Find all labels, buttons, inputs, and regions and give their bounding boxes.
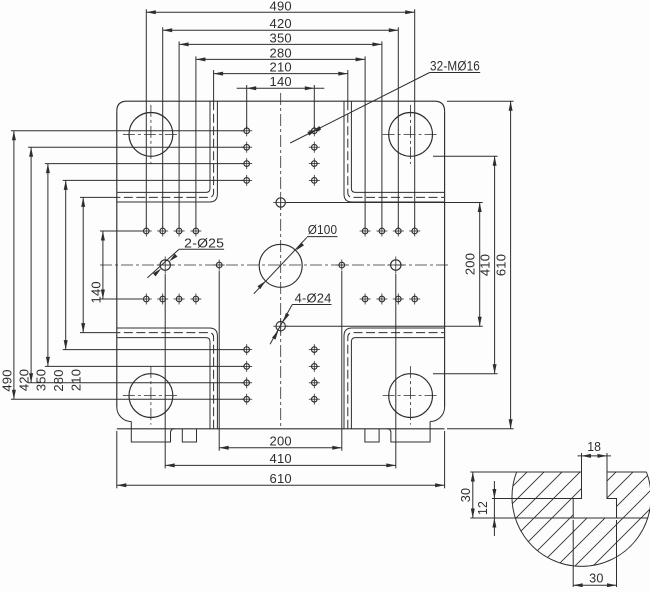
M16 hole bottom arm (314,350) xyxy=(309,344,320,355)
Ø25 hole right xyxy=(387,257,404,274)
svg-text:30: 30 xyxy=(589,572,604,586)
leader slash for 4-Ø24 xyxy=(270,305,332,345)
M16 hole bottom arm (314,383) xyxy=(309,377,320,388)
M16 hole right arm (382,231) xyxy=(376,226,387,237)
detail dimension 30 left arrows xyxy=(471,472,475,518)
small hole right of center xyxy=(336,260,347,271)
detail dimension 18 extension lines xyxy=(582,453,608,472)
M16 hole right arm (415,231) xyxy=(409,226,420,237)
M16 hole left arm (163,299) xyxy=(157,294,168,305)
top dimension 140 left arrow xyxy=(247,86,257,90)
detail bottom dimension 30 line xyxy=(573,584,616,586)
left dimension 210 bottom arrow xyxy=(81,323,85,333)
svg-text:200: 200 xyxy=(463,253,478,275)
plate outline: bottom edge xyxy=(117,428,445,430)
detail dimension 18 arrows xyxy=(582,454,608,458)
top dimension 280 right arrow xyxy=(356,57,366,61)
pad contour bottom-right inner solid line xyxy=(351,338,444,429)
M16 hole right arm (365,299) xyxy=(360,294,371,305)
plate outline: right big foot xyxy=(387,422,430,443)
top dimension 420 line xyxy=(163,29,399,31)
left dimension 490 top arrow xyxy=(12,131,16,141)
svg-text:30: 30 xyxy=(459,488,473,503)
pad contour bottom-left inner solid line xyxy=(117,338,210,429)
pad contour bottom-right outer solid line xyxy=(344,328,445,429)
extension lines for right dimension 410 xyxy=(433,156,498,373)
svg-text:32-MØ16: 32-MØ16 xyxy=(430,59,480,74)
extension lines for bottom dimension 610 xyxy=(117,431,445,488)
top dimension 140 right arrow xyxy=(305,86,315,90)
top dimension 490 left arrow xyxy=(146,10,156,14)
tie-bar hole circle bottom-right xyxy=(389,374,433,418)
bottom dimension 200 line xyxy=(219,447,342,449)
top dimension 210 right arrow xyxy=(338,72,348,76)
leader arrows at M16 hole xyxy=(307,126,321,136)
extension lines for left dimension 350 xyxy=(45,164,244,367)
M16 hole right arm (398,299) xyxy=(393,294,404,305)
M16 hole bottom arm (247,366) xyxy=(241,361,252,372)
left dimension 350 bottom arrow xyxy=(46,357,50,367)
M16 hole bottom arm (247,399) xyxy=(241,394,252,405)
M16 hole top arm (314,147) xyxy=(309,142,320,153)
right dimension 610 line xyxy=(510,101,512,429)
left dimension 140 top arrow xyxy=(101,231,105,241)
detail bottom dimension 30 arrows xyxy=(573,583,616,587)
extension lines for left dimension 210 xyxy=(80,197,117,332)
tie-bar hole circle top-right xyxy=(389,112,433,156)
svg-text:Ø100: Ø100 xyxy=(308,222,338,237)
extension lines for top dimension 280 xyxy=(196,56,365,228)
leader line for 32-MØ16 xyxy=(290,73,480,144)
extension lines for top dimension 350 xyxy=(179,41,382,228)
M16 hole left arm (163,231) xyxy=(157,226,168,237)
pad contour bottom-left hidden dashed line xyxy=(117,333,214,429)
svg-text:490: 490 xyxy=(0,369,14,391)
M16 hole right arm (382,299) xyxy=(376,294,387,305)
left dimension 420 line xyxy=(30,147,32,383)
bottom dimension 610 arrows xyxy=(117,483,445,487)
leader arrows at Ø24 hole xyxy=(272,313,289,340)
top dimension 280 left arrow xyxy=(196,57,206,61)
detail dimension 18 line xyxy=(578,455,612,457)
extension lines for top dimension 420 xyxy=(163,27,399,228)
detail view shoulder extension line xyxy=(492,498,573,500)
detail dimension 30 left line xyxy=(472,472,474,518)
M16 hole left arm (179,299) xyxy=(174,294,185,305)
left dimension 490 line xyxy=(13,131,15,399)
detail bottom 30 extension lines xyxy=(573,520,616,588)
plate outline: top edge with rounded corners xyxy=(117,101,445,111)
M16 hole top arm (314,164) xyxy=(309,158,320,169)
M16 hole top arm (247,147) xyxy=(241,142,252,153)
bottom dimension 200 arrows xyxy=(219,446,342,450)
left dimension 490 bottom arrow xyxy=(12,390,16,400)
svg-text:210: 210 xyxy=(270,60,292,75)
M16 hole right arm (365,231) xyxy=(360,226,371,237)
svg-text:410: 410 xyxy=(270,451,292,466)
top dimension 420 left arrow xyxy=(163,28,173,32)
tie-bar hole circle top-left xyxy=(129,112,173,156)
left dimension 350 line xyxy=(47,164,49,367)
pad contour top-right outer solid line xyxy=(344,101,445,202)
leader arrows at Ø25 hole xyxy=(153,254,178,277)
detail view T-slot outline xyxy=(573,472,616,518)
extension lines for left dimension 280 xyxy=(63,180,244,349)
svg-text:12: 12 xyxy=(476,501,490,515)
detail view dome arc outline xyxy=(512,472,650,566)
svg-text:2-Ø25: 2-Ø25 xyxy=(184,235,224,250)
svg-text:420: 420 xyxy=(270,16,292,31)
centerline horizontal of top-left tie-bar hole xyxy=(123,133,179,135)
svg-text:140: 140 xyxy=(88,281,103,303)
plate outline: left small foot pad xyxy=(182,429,196,442)
left dimension 210 line xyxy=(82,197,84,332)
center hole Ø100 xyxy=(259,244,302,287)
top dimension 490 right arrow xyxy=(405,10,415,14)
centerline horizontal of bottom-right tie-bar hole xyxy=(383,395,439,397)
top dimension 490 line xyxy=(146,11,414,13)
extension lines for right dimension 610 xyxy=(447,101,514,429)
plate outline: right concave fillet into right foot xyxy=(430,407,445,422)
svg-text:350: 350 xyxy=(270,30,292,45)
extension lines for bottom dimension 410 xyxy=(165,274,396,468)
bottom dimension 610 line xyxy=(117,484,445,486)
top dimension 350 right arrow xyxy=(372,42,382,46)
centerline horizontal of top-right tie-bar hole xyxy=(383,133,439,135)
left dimension 280 line xyxy=(65,180,67,349)
extension lines for top dimension 210 xyxy=(214,70,348,101)
left dimension 280 bottom arrow xyxy=(64,340,68,350)
tie-bar hole circle bottom-left xyxy=(129,374,173,418)
Ø24 hole bottom xyxy=(273,319,288,334)
plate outline: right small foot pad xyxy=(365,429,379,442)
right dimension 200 line xyxy=(479,203,481,327)
detail dimension 12 arrows xyxy=(492,489,496,528)
left dimension 420 top arrow xyxy=(29,147,33,157)
M16 hole bottom arm (247,383) xyxy=(241,377,252,388)
top dimension 420 right arrow xyxy=(389,28,399,32)
extension lines for left dimension 140 xyxy=(100,231,144,299)
M16 hole top arm (314,180) xyxy=(309,175,320,186)
M16 hole bottom arm (314,366) xyxy=(309,361,320,372)
svg-text:18: 18 xyxy=(587,440,601,454)
M16 hole left arm (146,231) xyxy=(141,226,152,237)
leader slash for 2-Ø25 xyxy=(147,249,224,278)
M16 hole left arm (179,231) xyxy=(174,226,185,237)
plate outline: left edge xyxy=(116,111,118,407)
main vertical centerline xyxy=(280,93,282,429)
pad contour top-left hidden dashed line xyxy=(117,101,214,197)
extension lines for left dimension 420 xyxy=(28,147,244,383)
svg-text:490: 490 xyxy=(270,0,292,13)
pad contour top-right inner solid line xyxy=(351,101,444,192)
bottom dimension 410 arrows xyxy=(165,463,396,467)
pad contour top-right hidden dashed line xyxy=(348,101,445,197)
small hole left of center xyxy=(214,260,225,271)
M16 hole left arm (196,231) xyxy=(190,226,201,237)
M16 hole right arm (415,299) xyxy=(409,294,420,305)
pad contour top-left outer solid line xyxy=(117,101,218,202)
centerline horizontal of bottom-left tie-bar hole xyxy=(123,395,179,397)
svg-text:350: 350 xyxy=(33,369,48,391)
left dimension 280 top arrow xyxy=(64,180,68,190)
svg-text:4-Ø24: 4-Ø24 xyxy=(295,291,332,306)
svg-text:610: 610 xyxy=(493,254,508,276)
plate outline: left big foot xyxy=(131,422,174,443)
pad contour bottom-left outer solid line xyxy=(117,328,218,429)
M16 hole left arm (196,299) xyxy=(190,294,201,305)
centerline vertical of top-left tie-bar hole xyxy=(150,105,152,164)
left dimension 210 top arrow xyxy=(81,197,85,207)
left dimension 140 line xyxy=(102,231,104,299)
right dimension 410 line xyxy=(494,156,496,373)
Ø25 hole left xyxy=(157,257,174,274)
left dimension 140 bottom arrow xyxy=(101,290,105,300)
svg-text:200: 200 xyxy=(270,433,292,448)
left dimension 420 bottom arrow xyxy=(29,373,33,383)
svg-text:210: 210 xyxy=(69,369,84,391)
detail dimension 12 line xyxy=(493,481,495,536)
right dimension 200 arrows xyxy=(478,203,482,327)
pad contour top-left inner solid line xyxy=(117,101,210,192)
main horizontal centerline xyxy=(100,264,450,266)
svg-text:280: 280 xyxy=(51,369,66,391)
detail view slot bottom extension line xyxy=(470,517,647,519)
svg-text:420: 420 xyxy=(17,369,32,391)
svg-text:410: 410 xyxy=(477,254,492,276)
bottom dimension 410 line xyxy=(165,464,396,466)
right dimension 410 arrows xyxy=(493,156,497,373)
M16 hole top arm (247,164) xyxy=(241,158,252,169)
M16 hole left arm (146,299) xyxy=(141,294,152,305)
M16 hole top arm (247,180) xyxy=(241,175,252,186)
centerline vertical of top-right tie-bar hole xyxy=(410,105,412,164)
extension lines for top dimension 140 xyxy=(247,85,315,128)
top dimension 350 line xyxy=(179,43,382,45)
svg-text:610: 610 xyxy=(270,471,292,486)
extension lines for top dimension 490 xyxy=(146,9,414,228)
top dimension 210 line xyxy=(214,73,348,75)
detail view top edge right segment xyxy=(607,471,646,473)
extension lines for left dimension 490 xyxy=(11,131,244,399)
plate outline: right edge xyxy=(444,111,446,407)
top dimension 350 left arrow xyxy=(179,42,189,46)
right dimension 610 arrows xyxy=(509,101,513,429)
centerline vertical of bottom-right tie-bar hole xyxy=(410,366,412,425)
svg-text:280: 280 xyxy=(270,45,292,60)
leader slash for Ø100 xyxy=(254,237,338,294)
svg-text:140: 140 xyxy=(270,74,292,89)
extension lines for right dimension 200 xyxy=(286,203,483,327)
M16 hole right arm (398,231) xyxy=(393,226,404,237)
extension lines for bottom dimension 200 xyxy=(219,271,342,451)
M16 hole bottom arm (247,350) xyxy=(241,344,252,355)
top dimension 140 line xyxy=(237,87,325,89)
left dimension 350 top arrow xyxy=(46,164,50,174)
pad contour bottom-right hidden dashed line xyxy=(348,333,445,429)
top dimension 280 line xyxy=(196,58,365,60)
plate outline: left concave fillet into left foot xyxy=(117,407,132,422)
M16 hole bottom arm (314,399) xyxy=(309,394,320,405)
M16 hole top arm (247,131) xyxy=(241,125,252,136)
M16 hole top arm (314,131) xyxy=(309,125,320,136)
top dimension 210 left arrow xyxy=(214,72,224,76)
detail view top edge left segment xyxy=(470,471,581,473)
leader arrows at Ø100 circle xyxy=(257,242,304,289)
centerline vertical of bottom-left tie-bar hole xyxy=(150,366,152,425)
Ø24 hole top xyxy=(273,195,288,210)
